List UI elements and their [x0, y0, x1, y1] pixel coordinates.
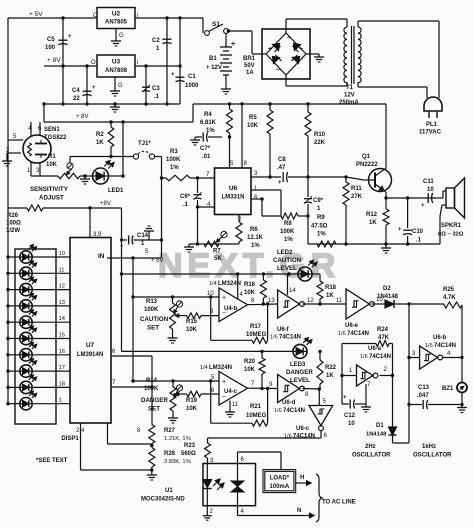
svg-text:C9*: C9* [313, 198, 324, 204]
svg-text:U6-e: U6-e [345, 323, 359, 329]
svg-text:+: + [231, 41, 235, 48]
wire pin1 loop [251, 189, 281, 191]
svg-text:1K: 1K [326, 293, 334, 299]
resistor R18 [312, 273, 320, 275]
load box [263, 470, 296, 493]
IC U6 LM331N [215, 168, 252, 215]
inverter U6-e [346, 289, 369, 319]
svg-text:ADJUST: ADJUST [39, 195, 64, 202]
svg-text:+: + [398, 227, 402, 233]
svg-text:C3: C3 [152, 86, 160, 92]
svg-text:+: + [421, 203, 425, 209]
node bus B signal [132, 258, 134, 381]
wire U6-d out [303, 388, 320, 391]
triac U1 [237, 464, 239, 482]
resistor R6 [236, 222, 242, 242]
svg-text:1N4148: 1N4148 [366, 432, 387, 438]
svg-text:1000: 1000 [185, 83, 199, 89]
svg-text:74C14N: 74C14N [347, 331, 369, 337]
svg-text:R8: R8 [284, 221, 292, 227]
wire C11 to speaker [433, 197, 443, 199]
svg-text:R9: R9 [317, 215, 325, 221]
svg-text:1A: 1A [246, 70, 254, 76]
svg-text:U6-d: U6-d [282, 400, 296, 406]
wire R27 drop [151, 356, 153, 425]
op-amp U4-c [219, 372, 247, 406]
wire to U6-e [320, 303, 346, 305]
LED DISP1-4 [20, 300, 32, 312]
wire pin6 loop [251, 198, 262, 200]
wire U6-f out [303, 303, 321, 305]
wire U6-b out [443, 357, 462, 359]
svg-text:R27: R27 [164, 428, 176, 434]
wire U1 pin2 ground [206, 506, 208, 513]
wire H [296, 482, 311, 484]
node TJ1 line [70, 156, 133, 158]
svg-text:74C14N: 74C14N [283, 408, 305, 414]
resistor R20 [261, 351, 263, 358]
wire U3 input [135, 65, 180, 67]
wire U4-b vcc pin4 [237, 274, 239, 299]
resistor R27 [149, 425, 155, 444]
ground C14 [148, 234, 150, 240]
svg-text:+ 8V: + 8V [76, 114, 89, 120]
diode D2 [385, 300, 394, 308]
ground R28 [151, 472, 153, 475]
wiper R13 [176, 301, 182, 307]
svg-text:R11: R11 [351, 186, 362, 192]
svg-text:+ 12V: + 12V [206, 65, 222, 71]
wire pin8 [241, 104, 243, 168]
svg-text:O: O [93, 13, 98, 19]
wire sensor pins 1 3 [30, 162, 32, 176]
svg-text:47K: 47K [378, 335, 390, 341]
svg-text:SET: SET [147, 325, 159, 332]
svg-text:6.81K: 6.81K [200, 120, 217, 126]
svg-text:10MEG: 10MEG [246, 332, 267, 338]
capacitor C9 [307, 177, 309, 197]
ground bridge [318, 54, 320, 57]
node bottom line [308, 243, 408, 245]
ground R13 [172, 335, 174, 338]
wire R25 down [461, 305, 463, 358]
potentiometer R13 [172, 297, 174, 303]
svg-text:4.7K: 4.7K [443, 295, 456, 301]
svg-text:AN7808: AN7808 [105, 68, 128, 74]
svg-text:10K: 10K [244, 367, 256, 373]
svg-text:.1: .1 [416, 238, 422, 244]
svg-text:BR1: BR1 [243, 56, 256, 62]
wire D2 node [409, 303, 444, 305]
svg-text:OSCILLATOR: OSCILLATOR [413, 453, 452, 459]
svg-text:CAUTION: CAUTION [140, 316, 169, 323]
svg-text:−: − [299, 46, 303, 53]
svg-text:14: 14 [59, 316, 66, 322]
wire IN line [107, 257, 162, 259]
resistor R17 [210, 297, 212, 340]
svg-text:1/6: 1/6 [425, 343, 433, 349]
svg-text:R16: R16 [244, 282, 256, 288]
LED LED2 [298, 267, 312, 281]
svg-text:U1: U1 [165, 488, 173, 494]
capacitor C5 [62, 18, 64, 104]
wire sensor pin5 [8, 139, 23, 141]
wire sensor pins 4 6 [30, 122, 32, 136]
svg-text:R5: R5 [249, 115, 257, 121]
ground U4-c [229, 409, 231, 412]
resistor R5 [269, 104, 271, 110]
node R7 ground line [189, 243, 239, 245]
svg-text:−: − [222, 394, 226, 401]
svg-text:D1: D1 [376, 423, 384, 429]
ground main [114, 104, 116, 107]
ground R12 [385, 245, 387, 248]
wire bridge bottom to T1 [285, 75, 287, 86]
svg-text:R22: R22 [325, 365, 337, 371]
svg-text:50V: 50V [244, 63, 255, 69]
svg-text:C7*: C7* [200, 146, 211, 152]
LED DISP1-10 [20, 398, 32, 410]
node pin5 line [133, 380, 219, 382]
svg-text:U6-a: U6-a [368, 346, 382, 352]
wire U7 pins 2 4 [80, 423, 82, 470]
svg-text:DANGER: DANGER [286, 369, 313, 376]
svg-text:1N4148: 1N4148 [377, 294, 399, 300]
svg-text:100K: 100K [144, 386, 159, 392]
svg-text:10K: 10K [186, 406, 198, 412]
svg-text:1%: 1% [170, 165, 179, 171]
svg-text:1.: 1. [59, 398, 64, 404]
svg-text:100K: 100K [144, 307, 159, 313]
svg-text:1/6: 1/6 [274, 408, 282, 414]
svg-text:11: 11 [336, 298, 343, 304]
node +8V rail [44, 65, 97, 67]
node danger rail [122, 350, 294, 352]
svg-text:S1: S1 [212, 21, 220, 28]
svg-text:C2: C2 [152, 38, 160, 44]
wire bridge minus to ground [306, 53, 319, 55]
svg-text:BZ1: BZ1 [442, 386, 454, 392]
resistor R12 [385, 198, 387, 209]
wire DISP1 anode bus [7, 208, 9, 403]
wire U4-c gnd pin11 [229, 401, 231, 410]
wire pin3 to Q1 base [308, 176, 346, 178]
svg-text:Q1: Q1 [362, 154, 371, 160]
svg-text:R20: R20 [244, 359, 256, 365]
svg-text:12V: 12V [344, 93, 355, 99]
node bus A +8V [121, 208, 123, 240]
svg-text:MOC3042IS-ND: MOC3042IS-ND [141, 497, 185, 503]
svg-text:*SEE TEXT: *SEE TEXT [36, 458, 68, 464]
svg-text:R1: R1 [48, 154, 56, 160]
wire U6-a pin7 [365, 384, 367, 404]
wiper R7 [221, 231, 227, 237]
wire +5V left drop [7, 18, 9, 208]
svg-text:R3: R3 [170, 149, 178, 155]
wire pin6 to load [237, 452, 239, 464]
buzzer BZ1 [461, 358, 463, 383]
LED DISP1-7 [20, 349, 32, 361]
brace to AC line [316, 474, 322, 522]
svg-text:+: + [343, 395, 347, 401]
svg-text:1kHz: 1kHz [422, 444, 436, 450]
wire LED1 drop [122, 122, 124, 176]
ground C7 [194, 137, 196, 140]
svg-text:R4: R4 [204, 112, 212, 118]
svg-text:U6-c: U6-c [296, 426, 310, 432]
svg-text:22K: 22K [314, 140, 326, 146]
svg-text:U6-f: U6-f [277, 327, 290, 333]
svg-text:10K: 10K [46, 162, 58, 168]
ground C12 [365, 404, 367, 407]
wire signal drop [161, 178, 163, 240]
svg-text:PN2222: PN2222 [356, 162, 378, 168]
resistor R22 [319, 351, 321, 360]
LED DISP1-2 [20, 267, 32, 279]
svg-text:R26: R26 [7, 213, 19, 219]
node pin7 junction [196, 176, 199, 179]
svg-text:12: 12 [307, 298, 314, 304]
svg-text:LED1: LED1 [108, 188, 124, 194]
svg-text:250mA: 250mA [339, 100, 359, 106]
svg-text:8Ω – 32Ω: 8Ω – 32Ω [438, 232, 464, 238]
svg-text:3.83K, 1%: 3.83K, 1% [164, 459, 191, 465]
svg-text:13: 13 [59, 300, 65, 306]
svg-text:10MEG: 10MEG [246, 413, 267, 419]
resistor R4 [229, 104, 231, 109]
wiper R14 [176, 385, 182, 391]
svg-text:DISP1: DISP1 [61, 436, 79, 442]
svg-text:SET: SET [148, 406, 160, 413]
resistor R19 [176, 393, 187, 395]
potentiometer R14 [172, 381, 174, 387]
resistor R28 [149, 448, 155, 468]
resistor R3 [162, 177, 167, 179]
jumper TJ1 [133, 154, 138, 159]
speaker SPKR1 [446, 188, 455, 208]
svg-text:B1: B1 [209, 56, 217, 62]
LED DISP1-3 [20, 283, 32, 295]
svg-text:TJ1*: TJ1* [138, 141, 151, 147]
svg-text:R7: R7 [213, 249, 221, 255]
node sensor +8V line [44, 121, 193, 123]
svg-text:R2: R2 [96, 132, 104, 138]
svg-text:10: 10 [348, 421, 355, 427]
wire R4 to pin5 [229, 137, 231, 168]
wire U7 pin6 [111, 355, 152, 357]
node +5V rail [8, 17, 97, 19]
wire S1 to bridge [228, 30, 252, 32]
svg-text:.047: .047 [417, 393, 429, 399]
sensor SEN1 TGS822 [23, 135, 51, 163]
svg-text:10K: 10K [186, 327, 198, 333]
svg-text:R18: R18 [325, 285, 337, 291]
potentiometer R7 [204, 241, 219, 247]
wire T1 primary top [357, 21, 359, 27]
capacitor C14 [128, 236, 130, 245]
svg-text:~: ~ [287, 35, 291, 42]
wire T1 primary bottom [357, 82, 359, 87]
svg-text:U2: U2 [112, 11, 121, 18]
ground R14 [172, 415, 174, 418]
svg-text:LM324N: LM324N [209, 365, 232, 371]
transistor Q1 PN2222 [369, 169, 392, 192]
resistor R11 [345, 177, 347, 182]
svg-text:11: 11 [59, 267, 65, 273]
regulator U2 AN7805 [97, 8, 135, 29]
svg-text:18: 18 [59, 381, 65, 387]
svg-text:10K: 10K [247, 123, 259, 129]
capacitor C1 [179, 18, 181, 104]
ground BZ1 [461, 405, 463, 408]
svg-text:+ 5V: + 5V [29, 11, 43, 18]
svg-text:1/6: 1/6 [338, 331, 346, 337]
svg-text:1%: 1% [317, 232, 326, 238]
switch S1 [202, 18, 204, 33]
svg-text:74C14N: 74C14N [279, 335, 301, 341]
svg-text:C13: C13 [418, 385, 430, 391]
svg-text:+8V: +8V [100, 201, 111, 207]
capacitor C13 [409, 404, 422, 406]
svg-text:PL1: PL1 [426, 122, 438, 128]
svg-text:74C14N: 74C14N [369, 354, 391, 360]
wire pin2 R6 [238, 215, 240, 223]
wire Q1 collector [385, 168, 388, 170]
svg-text:SPKR1: SPKR1 [441, 223, 462, 229]
capacitor C2 [166, 18, 168, 104]
capacitor C3 [145, 66, 147, 104]
wire speaker bottom [442, 204, 446, 206]
svg-text:CAUTION: CAUTION [273, 257, 302, 264]
wire emitter line [386, 197, 435, 199]
svg-text:.01: .01 [202, 154, 211, 160]
wire pin3 line [251, 176, 281, 178]
ground R7 line [188, 244, 190, 247]
svg-text:G: G [118, 83, 123, 89]
optocoupler U1 MOC3042 [203, 464, 256, 506]
svg-text:U6-b: U6-b [433, 335, 447, 341]
svg-text:10: 10 [207, 291, 214, 297]
svg-text:N: N [297, 508, 301, 514]
svg-text:R28: R28 [164, 451, 176, 457]
LED DISP1-5 [20, 316, 32, 328]
svg-text:10K: 10K [244, 290, 256, 296]
svg-text:R23: R23 [184, 443, 196, 449]
inverter U6-b [420, 346, 438, 369]
svg-text:TO AC LINE: TO AC LINE [322, 500, 356, 506]
LED LED3 [293, 344, 307, 358]
svg-text:+ 8V: + 8V [151, 258, 164, 264]
svg-text:R25: R25 [443, 287, 455, 293]
IC U7 LM3914N [70, 238, 111, 424]
svg-text:+: + [278, 180, 282, 186]
svg-text:15: 15 [59, 333, 65, 339]
svg-text:+: + [92, 85, 96, 91]
svg-text:R17: R17 [250, 324, 262, 330]
wire U6-e out [372, 303, 386, 305]
svg-text:R19: R19 [186, 398, 198, 404]
resistor R24 [342, 343, 376, 345]
svg-text:1.21K, 1%: 1.21K, 1% [164, 436, 191, 442]
svg-text:IN: IN [98, 253, 105, 260]
svg-text:10: 10 [427, 187, 434, 193]
ground U1 [206, 513, 208, 516]
node +8V step to main rail [192, 104, 194, 122]
svg-text:C8: C8 [278, 157, 286, 163]
svg-text:i: i [137, 60, 138, 66]
svg-text:+: + [268, 46, 272, 53]
node rail 208 [8, 207, 27, 209]
wire U7 pin8 [107, 423, 109, 444]
svg-text:1/4: 1/4 [209, 281, 217, 287]
svg-text:5K: 5K [214, 256, 222, 262]
ground rail [44, 103, 180, 105]
svg-text:.47: .47 [277, 165, 286, 171]
resistor R15 [176, 315, 187, 317]
wire Q1 emitter [385, 190, 386, 193]
op-amp U4-b [219, 288, 247, 322]
battery B1 [225, 34, 227, 48]
display DISP1 box [15, 249, 56, 424]
svg-text:47.5Ω: 47.5Ω [311, 224, 328, 230]
svg-text:LEVEL: LEVEL [277, 265, 297, 272]
svg-text:G: G [119, 33, 124, 39]
wire bridge top to T1 [285, 19, 287, 33]
svg-text:1/6: 1/6 [360, 354, 368, 360]
svg-text:~: ~ [276, 67, 280, 74]
svg-text:100: 100 [45, 45, 56, 51]
capacitor C7 [208, 136, 222, 138]
svg-text:1/6: 1/6 [270, 335, 278, 341]
svg-text:R24: R24 [377, 327, 389, 333]
svg-text:2,4: 2,4 [76, 428, 85, 434]
resistor R2 [110, 122, 112, 127]
svg-text:12.1K: 12.1K [247, 235, 264, 241]
wire U4-b out [248, 303, 278, 306]
wire N [237, 506, 239, 516]
svg-text:D2: D2 [383, 286, 391, 292]
resistor R16 [262, 274, 264, 280]
capacitor C6 [197, 178, 199, 193]
svg-text:C11: C11 [423, 179, 434, 185]
LED LED1 [93, 168, 109, 184]
diode D1 [392, 344, 394, 376]
svg-text:+ 8V: + 8V [47, 57, 61, 64]
wire U7 pin 3 9 [89, 208, 91, 238]
resistor R21 [210, 381, 212, 423]
svg-text:17: 17 [59, 365, 65, 371]
svg-text:LEVEL: LEVEL [290, 377, 310, 384]
wire TJ1 to node [155, 156, 162, 158]
plug PL1 [424, 97, 442, 111]
wire U7 pin7 [111, 386, 152, 388]
svg-text:R13: R13 [146, 299, 158, 305]
svg-text:SEN1: SEN1 [44, 127, 60, 133]
svg-text:100K: 100K [166, 157, 181, 163]
svg-text:1/4: 1/4 [200, 365, 208, 371]
svg-text:C14: C14 [137, 233, 149, 239]
ground U3 [114, 77, 116, 88]
svg-text:11: 11 [232, 402, 239, 408]
svg-text:117VAC: 117VAC [419, 130, 442, 136]
svg-text:R14: R14 [146, 378, 158, 384]
svg-text:1%: 1% [284, 237, 293, 243]
svg-text:+: + [222, 295, 226, 302]
svg-text:AN7805: AN7805 [105, 20, 128, 26]
svg-text:16: 16 [59, 349, 65, 355]
svg-text:R10: R10 [314, 132, 326, 138]
svg-text:U4-c: U4-c [224, 389, 238, 395]
